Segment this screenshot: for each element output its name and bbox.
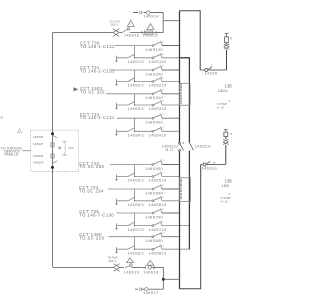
svg-text:146S15: 146S15 [143, 34, 158, 38]
transformer delta above 146S19 [127, 258, 134, 263]
switch 146S5 [205, 69, 208, 72]
svg-text:TO 146-1-C132: TO 146-1-C132 [80, 44, 115, 49]
svg-text:75: 75 [229, 133, 232, 136]
svg-text:146S110: 146S110 [149, 60, 167, 64]
svg-text:5/1: 5/1 [160, 196, 164, 199]
ground arrow circuit 7 [116, 223, 118, 228]
svg-text:146S2/1: 146S2/1 [128, 84, 145, 88]
wire: transfer/ground line circuit 2 [117, 81, 180, 83]
svg-text:146S26: 146S26 [33, 154, 44, 158]
wire: drop to transfer line circuit 5 [134, 165, 136, 177]
svg-text:5/1: 5/1 [160, 89, 164, 92]
grounding switch 146S6/1 blade [128, 197, 134, 200]
transfer switch 146S310 [152, 104, 154, 106]
wire: vertical drop x=52.5 from feed line to station service box [52, 33, 54, 130]
disconnect switch 146S200 [152, 69, 154, 71]
svg-text:146S5/1: 146S5/1 [128, 179, 145, 183]
svg-text:146S7/1: 146S7/1 [128, 228, 145, 232]
svg-text:146S25: 146S25 [33, 135, 44, 139]
disconnect switch 146S400 [152, 117, 154, 119]
transfer switch 146S710 [152, 225, 154, 227]
breaker 146S18 (tick circle arc) [145, 266, 147, 270]
svg-text:364-1: 364-1 [108, 259, 116, 263]
svg-text:5/1: 5/1 [160, 244, 164, 247]
svg-text:146S1/1: 146S1/1 [128, 60, 145, 64]
wire: transfer/ground line circuit 8 [117, 248, 190, 250]
wire: CCT feeder line circuit 3 [106, 93, 152, 95]
grounding switch 146S5/1 blade [128, 173, 134, 176]
svg-text:18/24: 18/24 [218, 88, 229, 93]
svg-text:146S29: 146S29 [33, 161, 44, 165]
svg-text:TO 146-7-C130: TO 146-7-C130 [79, 213, 114, 218]
svg-text:TO 146-2-C133: TO 146-2-C133 [80, 69, 115, 74]
wire: transfer/ground line circuit 6 [117, 200, 180, 202]
bus tie switch 146S10 N.O. on main bus [179, 143, 181, 145]
node: junction dot bottom [51, 166, 54, 169]
svg-text:5/1: 5/1 [160, 126, 164, 129]
switch 146S16 blade [122, 29, 127, 32]
wire: CCT feeder line circuit 1 [115, 45, 152, 47]
svg-text:TO SC 219: TO SC 219 [79, 235, 104, 240]
wire: right vertical of bottom loop x=163.4 [162, 267, 164, 289]
svg-text:363-1: 363-1 [110, 22, 118, 26]
transformer delta symbol above 146S16 [127, 20, 134, 26]
ground arrow circuit 4 [116, 129, 118, 134]
bus section label box 2: 13.8 KV BUS [180, 178, 191, 202]
ground arrow circuit 6 [116, 199, 118, 204]
ground arrow circuit 3 [116, 103, 118, 108]
transfer switch 146S110 [152, 57, 154, 59]
node: tap junction dot [162, 278, 165, 281]
svg-text:146S5: 146S5 [205, 71, 218, 75]
svg-text:146S210: 146S210 [149, 84, 167, 88]
svg-text:TO 146-4-C131: TO 146-4-C131 [80, 115, 115, 120]
svg-text:146S17: 146S17 [143, 291, 158, 295]
svg-text:5/1: 5/1 [160, 208, 164, 211]
contact 146S15 (tick-box-tick) [142, 31, 156, 34]
grounding switch 146S7/1 blade [128, 222, 134, 225]
wire: CCT feeder line circuit 4 [117, 117, 152, 119]
disconnect switch 146S300 [152, 93, 154, 95]
wire: transfer/ground line circuit 4 [117, 130, 180, 132]
svg-text:146S18: 146S18 [143, 271, 158, 275]
svg-text:146S16: 146S16 [124, 34, 139, 38]
switchgear cubicle outline (bottom right edge) [180, 165, 201, 289]
wire: drop to transfer line circuit 1 [134, 46, 136, 58]
svg-text:146S310: 146S310 [149, 107, 167, 111]
svg-text:146S4/1: 146S4/1 [128, 134, 145, 138]
fuse cutout chain section 2 [225, 145, 227, 165]
disconnect switch 146S600 [152, 188, 154, 190]
svg-text:5/1: 5/1 [160, 172, 164, 175]
grounding switch 146S3/1 blade [128, 102, 134, 105]
svg-text:+/- 10: +/- 10 [220, 200, 228, 204]
node: junction dot top [51, 132, 54, 135]
grounding switch 146S8/1 blade [128, 246, 134, 249]
wire: corner from station box vertical to bottom feed line [53, 266, 146, 267]
disconnect switch 146S100 [152, 45, 154, 47]
svg-text:146S400: 146S400 [145, 121, 163, 125]
wire: connector to switchgear box y=20.7 [163, 20, 179, 22]
svg-text:5/1: 5/1 [160, 160, 164, 163]
disconnect switch 146S800 [152, 236, 154, 238]
wire: CCT feeder line circuit 5 [110, 164, 152, 166]
wire: vertical through station box x=52.5 [52, 130, 54, 266]
wire: feeder through box to transformer fuse, y=164.5 [201, 164, 226, 166]
wire: drop to transfer line circuit 4 [134, 118, 136, 131]
svg-text:146S410: 146S410 [149, 134, 167, 138]
svg-text:146S800: 146S800 [145, 239, 163, 243]
grounding switch 146S4/1 blade [128, 128, 134, 131]
wire: CCT feeder line circuit 2 [111, 69, 153, 71]
svg-text:146S19: 146S19 [124, 271, 139, 275]
ground arrow circuit 2 [116, 79, 118, 84]
svg-text:5/1: 5/1 [160, 65, 164, 68]
svg-text:5/1: 5/1 [160, 221, 164, 224]
wire: drop to transfer line circuit 6 [134, 189, 136, 201]
switchgear cubicle outline (top box) [180, 11, 201, 70]
wire: CCT feeder line circuit 8 [109, 236, 153, 238]
warning triangle note [17, 129, 21, 133]
svg-text:146S8/1: 146S8/1 [128, 251, 145, 255]
transformer delta above 146S18 [147, 260, 154, 265]
ground arrow circuit 8 [116, 247, 118, 252]
disconnect switch 146S500 [152, 164, 154, 166]
wire: bottom stub line with 146S17 [135, 288, 163, 290]
svg-text:146S22!: 146S22! [195, 145, 212, 149]
wire: station service feed line y=32.6 [53, 32, 114, 34]
svg-text:TO SC 290: TO SC 290 [79, 164, 104, 169]
ground arrow circuit 1 [116, 56, 118, 61]
svg-text:N.O.: N.O. [166, 148, 175, 152]
svg-text:146S510: 146S510 [149, 179, 167, 183]
svg-text:146S100: 146S100 [145, 48, 163, 52]
wire: drop to transfer line circuit 7 [134, 213, 136, 226]
disconnect 146S17 (tick arcs circle) [139, 288, 142, 291]
transfer switch 146S210 [152, 81, 154, 83]
svg-text:TO SC 325: TO SC 325 [80, 90, 105, 95]
wire: vertical x=163.2 joining 146S14 and 146S15 lines [162, 13, 164, 33]
wire: transfer/ground line circuit 1 [117, 57, 190, 59]
transfer bus switch 146S22 [189, 143, 193, 151]
svg-text:OFF: OFF [68, 146, 74, 150]
wire: transfer/ground line circuit 3 [117, 104, 180, 106]
svg-text:5/1: 5/1 [160, 113, 164, 116]
transfer switch 146S510 [152, 176, 154, 178]
transformer delta symbol above 146S15 [147, 24, 154, 30]
fuse 75KVA 363-1 [113, 29, 119, 37]
transfer switch 146S610 [152, 200, 154, 202]
wire: connector from panels label to box [23, 150, 31, 152]
svg-text:5/1: 5/1 [160, 232, 164, 235]
wire: branch 146S14 line y=12.5 [133, 12, 163, 14]
svg-text:TO SC 294: TO SC 294 [79, 188, 104, 193]
disconnect switch 146S700 [152, 212, 154, 214]
svg-text:146S700: 146S700 [145, 215, 163, 219]
svg-text:PANELS: PANELS [4, 152, 19, 156]
grounding switch 146S1/1 blade [128, 54, 134, 57]
svg-text:5/1: 5/1 [160, 53, 164, 56]
grounding switch 146S2/1 blade [128, 78, 134, 81]
wire: drop to transfer line circuit 8 [134, 237, 136, 250]
svg-text:146S3/1: 146S3/1 [128, 107, 145, 111]
svg-text:ON: ON [62, 153, 66, 157]
selector ON/OFF/ON [58, 147, 61, 148]
svg-text:146S810: 146S810 [149, 251, 167, 255]
svg-text:146S600: 146S600 [145, 191, 163, 195]
svg-text:5/1: 5/1 [160, 41, 164, 44]
bus section label box 1: 13.8 KV BUS [180, 83, 191, 105]
wire: tap from bottom loop to switchgear box [163, 278, 179, 280]
fuse cutout chain section 1 [226, 50, 228, 70]
svg-text:146S500: 146S500 [145, 167, 163, 171]
svg-text:ON: ON [62, 139, 66, 143]
bus: transfer bus inner vertical [180, 58, 190, 249]
ground arrow circuit 5 [116, 174, 118, 179]
wire: drop to transfer line circuit 2 [134, 70, 136, 82]
bus: main 13.8kV bus vertical (box left edge) [179, 11, 181, 289]
svg-text:146S6/1: 146S6/1 [128, 203, 145, 207]
svg-text:+/- 10: +/- 10 [216, 106, 224, 110]
station service transfer switch box (dashed) [31, 130, 79, 171]
disconnect 146S14 (arcs + circle) [139, 11, 142, 14]
svg-text:5/1: 5/1 [160, 77, 164, 80]
wire: drop to transfer line circuit 3 [134, 94, 136, 105]
wire: feeder through box to transformer fuse, y=70 [200, 69, 226, 71]
svg-text:18/2: 18/2 [222, 183, 231, 188]
svg-text:13.8 KV BUS: 13.8 KV BUS [179, 178, 183, 200]
label: circuit CCT 1903 [74, 87, 79, 91]
transfer switch 146S410 [152, 130, 154, 132]
transfer switch 146S810 [152, 248, 154, 250]
svg-text:146S14: 146S14 [144, 14, 159, 18]
fuse 75KVA 364-1 [114, 264, 120, 272]
wire: transfer/ground line circuit 5 [117, 176, 180, 178]
svg-text:75: 75 [230, 38, 232, 41]
svg-text:5/1: 5/1 [160, 184, 164, 187]
svg-text:146S610: 146S610 [149, 203, 167, 207]
svg-text:146S27: 146S27 [33, 142, 44, 146]
svg-text:146S10: 146S10 [202, 167, 217, 171]
svg-text:5/1: 5/1 [160, 100, 164, 103]
wire: transfer/ground line circuit 7 [117, 225, 190, 227]
svg-text:13.8 KV BUS: 13.8 KV BUS [179, 83, 183, 105]
wire: CCT feeder line circuit 7 [117, 212, 153, 214]
wire: CCT feeder line circuit 6 [108, 188, 152, 190]
switch 146S19 [125, 266, 129, 268]
switch 146S10 (right) [203, 163, 206, 166]
